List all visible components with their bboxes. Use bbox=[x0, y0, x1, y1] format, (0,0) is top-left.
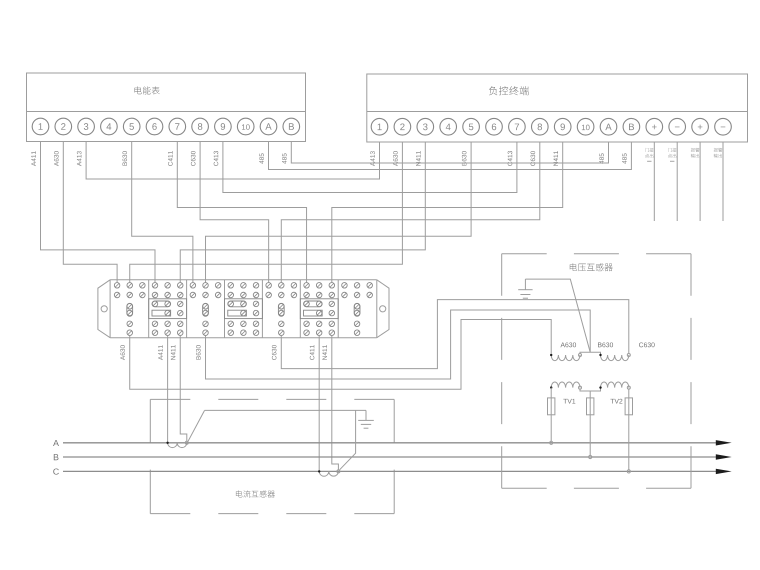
TV2 secondary polarity dot bbox=[599, 386, 601, 388]
wire PT secondary a (to phase A) bbox=[550, 388, 552, 442]
meter block title 电能表 bbox=[134, 86, 141, 94]
node tap phase A bbox=[550, 441, 553, 444]
strip divider 2 bbox=[186, 280, 188, 338]
label C630 (PT) bbox=[639, 342, 643, 347]
label 485 (meter wire) bbox=[282, 153, 287, 163]
meter pin 1 bbox=[32, 118, 49, 135]
wire B630 (strip - PT primary) bbox=[206, 310, 591, 379]
meter pin 2 bbox=[55, 118, 72, 135]
TV2 primary terminal C630 bbox=[627, 354, 630, 357]
strip voltage link col 20 bbox=[354, 303, 360, 316]
arrow phase C bbox=[716, 469, 732, 474]
current transformer box (dashed) bbox=[150, 398, 394, 400]
wire A411 (strip - CT A) bbox=[167, 335, 169, 442]
label 门接点出 (pin 14) bbox=[668, 148, 672, 152]
wire stub pin 14 bbox=[676, 142, 678, 221]
load-control block 负控终端 outline bbox=[367, 74, 748, 142]
meter pin 8 bbox=[192, 118, 209, 135]
wire A630 (terminal 2 - strip) bbox=[130, 142, 403, 282]
label B630 (strip bottom) bbox=[196, 345, 201, 359]
label C630 (strip bottom) bbox=[272, 345, 277, 360]
meter pin B bbox=[283, 118, 300, 135]
label phase A bbox=[53, 440, 59, 446]
CT C winding bbox=[319, 471, 338, 476]
TV2 secondary winding bbox=[601, 382, 629, 388]
fuse TV2 c bbox=[625, 398, 632, 415]
terminal pin B bbox=[623, 118, 640, 135]
terminal pin 1 bbox=[371, 118, 388, 135]
strip current link group 2 bbox=[225, 299, 263, 319]
CT C polarity dot bbox=[318, 470, 320, 472]
meter pin 10 bbox=[237, 118, 254, 135]
label 485 (terminal wire) bbox=[599, 153, 604, 163]
terminal pin + bbox=[646, 118, 663, 135]
label A630 (PT) bbox=[560, 343, 565, 348]
meter pin 3 bbox=[78, 118, 95, 135]
TV1 primary terminal bbox=[579, 354, 582, 357]
strip screw terminals bottom rows bbox=[127, 321, 360, 335]
arrow phase B bbox=[716, 454, 732, 459]
terminal pin 9 bbox=[554, 118, 571, 135]
CT A secondary terminal bbox=[185, 441, 188, 444]
label A411 (meter wire) bbox=[31, 151, 35, 166]
label A630 (strip bottom) bbox=[120, 345, 125, 360]
label 报警输出 (pin 16) bbox=[714, 148, 718, 152]
wire ground to B630 node bbox=[525, 279, 590, 352]
TV1 primary polarity dot bbox=[550, 354, 552, 356]
load-control block title 负控终端 bbox=[489, 86, 497, 95]
wire B630 (terminal 5 - strip) bbox=[206, 142, 472, 282]
strip divider 3 bbox=[224, 280, 226, 338]
strip divider 5 bbox=[299, 280, 301, 338]
TV1 secondary winding bbox=[551, 382, 580, 388]
wire C411 (meter 7 - strip) bbox=[177, 142, 306, 283]
label C630 (meter wire) bbox=[191, 151, 196, 166]
wire B630 (meter 5 - strip) bbox=[132, 142, 193, 283]
fuse TV1 a bbox=[548, 398, 555, 415]
label TV1 bbox=[563, 399, 567, 404]
wire N411 (strip - CT C) bbox=[332, 335, 339, 469]
terminal pin 8 bbox=[532, 118, 549, 135]
strip voltage link col 2 bbox=[127, 303, 133, 316]
label N411 (terminal wire) bbox=[554, 151, 558, 166]
strip screw terminals top rows bbox=[114, 283, 372, 298]
meter pin A bbox=[260, 118, 277, 135]
terminal pin &#8722; bbox=[715, 118, 732, 135]
wire N411 (strip - CT A) bbox=[180, 335, 187, 441]
strip current link group 1 bbox=[149, 299, 187, 319]
label A413 (terminal wire) bbox=[370, 151, 375, 166]
secondary bridge bbox=[580, 388, 601, 391]
wire N411 (terminal 9 - strip) bbox=[332, 142, 563, 282]
label 485 (meter wire) bbox=[259, 153, 264, 163]
node tap phase C bbox=[627, 470, 630, 473]
label C413 (terminal wire) bbox=[508, 151, 513, 166]
label A413 (meter wire) bbox=[77, 151, 82, 166]
phase line B bbox=[63, 456, 717, 458]
terminal pin 4 bbox=[440, 118, 457, 135]
wire N411 (terminal 3 - strip) bbox=[180, 142, 425, 282]
wire stub pin 13 bbox=[653, 142, 655, 221]
label N411 (strip bottom) bbox=[171, 345, 175, 360]
TV1 secondary polarity dot bbox=[550, 386, 552, 388]
wire PT secondary c (to phase C) bbox=[628, 389, 630, 470]
wire A413 (meter 3 - terminal 1) bbox=[86, 142, 379, 180]
meter block 电能表 outline bbox=[27, 73, 306, 142]
wire A411 (meter 1 - strip) bbox=[41, 142, 155, 283]
strip divider 1 bbox=[148, 280, 150, 338]
label phase C bbox=[53, 468, 59, 474]
label C411 (meter wire) bbox=[168, 151, 173, 166]
wire 485 net1 (meter B - terminal A) bbox=[291, 142, 608, 164]
ground (CT area) bbox=[365, 410, 367, 420]
meter pin 6 bbox=[146, 118, 163, 135]
phase line C bbox=[63, 470, 717, 472]
wire stub pin 16 bbox=[722, 142, 724, 221]
label N411 (terminal wire) bbox=[416, 151, 420, 166]
label 电压互感器 bbox=[570, 263, 577, 271]
label C413 (meter wire) bbox=[214, 151, 219, 166]
label 电流互感器 bbox=[236, 490, 242, 497]
terminal pin 2 bbox=[394, 118, 411, 135]
label phase B bbox=[54, 454, 59, 460]
wire PT secondary b (to phase B) bbox=[589, 391, 591, 455]
wire CT-C neutral riser bbox=[340, 411, 356, 470]
wire A630 (strip - PT primary) bbox=[130, 320, 551, 390]
label 门接点出 (pin 13) bbox=[645, 148, 649, 152]
wire C413 (meter 9 - terminal 7) bbox=[223, 142, 517, 193]
label C630 (terminal wire) bbox=[531, 151, 536, 166]
terminal pin A bbox=[600, 118, 617, 135]
terminal pin &#8722; bbox=[669, 118, 686, 135]
terminal pin 3 bbox=[417, 118, 434, 135]
test terminal block outline bbox=[98, 280, 110, 338]
phase line A bbox=[63, 442, 717, 444]
TV1 secondary terminal bbox=[579, 386, 582, 389]
wire CT-A neutral to ground bbox=[188, 411, 204, 442]
mounting hole left bbox=[101, 306, 107, 312]
label 报警输出 (pin 15) bbox=[691, 148, 695, 152]
TV2 primary winding bbox=[601, 355, 629, 361]
label B630 (terminal wire) bbox=[462, 151, 467, 165]
label A630 (meter wire) bbox=[54, 151, 59, 166]
label A630 (terminal wire) bbox=[393, 151, 398, 166]
label N411 (strip bottom) bbox=[322, 345, 326, 360]
wire A630 (meter 2 - strip) bbox=[63, 142, 117, 283]
terminal pin 7 bbox=[509, 118, 526, 135]
TV2 primary polarity dot bbox=[599, 354, 601, 356]
TV2 secondary terminal bbox=[627, 386, 630, 389]
meter pin 4 bbox=[101, 118, 118, 135]
wire CT neutral bus bbox=[205, 409, 367, 411]
label A411 (strip bottom) bbox=[158, 345, 162, 360]
ground (PT area) bbox=[524, 279, 526, 290]
terminal pin + bbox=[692, 118, 709, 135]
terminal pin 6 bbox=[486, 118, 503, 135]
wire C630 (terminal 8 - strip) bbox=[281, 142, 540, 282]
terminal pin 10 bbox=[577, 118, 594, 135]
wire stub pin 15 bbox=[699, 142, 701, 221]
strip divider 4 bbox=[261, 280, 263, 338]
TV1 primary winding bbox=[551, 355, 580, 361]
CT A winding bbox=[168, 443, 187, 448]
fuse common b bbox=[587, 398, 594, 415]
wire C630 (strip - PT primary) bbox=[281, 300, 629, 369]
label B630 (PT) bbox=[598, 343, 602, 348]
label B630 (meter wire) bbox=[122, 151, 127, 165]
terminal pin 5 bbox=[463, 118, 480, 135]
meter pin 9 bbox=[215, 118, 232, 135]
CT C secondary terminal bbox=[337, 470, 340, 473]
wire C630 (meter 8 - strip) bbox=[200, 142, 269, 283]
mounting hole right bbox=[380, 306, 386, 312]
label TV2 bbox=[610, 399, 614, 404]
voltage transformer box (dashed) bbox=[502, 253, 691, 255]
CT A polarity dot bbox=[166, 442, 168, 444]
label 485 (terminal wire) bbox=[622, 153, 627, 163]
strip divider 6 bbox=[337, 280, 339, 338]
wire 485 net2 (meter A - terminal B) bbox=[269, 142, 632, 170]
primary bridge bbox=[580, 352, 601, 355]
meter pin 5 bbox=[123, 118, 140, 135]
strip voltage link col 8 bbox=[203, 303, 209, 316]
node tap phase B bbox=[589, 455, 592, 458]
strip current link group 3 bbox=[300, 299, 338, 319]
strip voltage link col 14 bbox=[278, 303, 284, 316]
label C411 (strip bottom) bbox=[310, 345, 315, 360]
arrow phase A bbox=[716, 440, 732, 445]
meter pin 7 bbox=[169, 118, 186, 135]
wire C411 (strip - CT C) bbox=[318, 335, 320, 471]
